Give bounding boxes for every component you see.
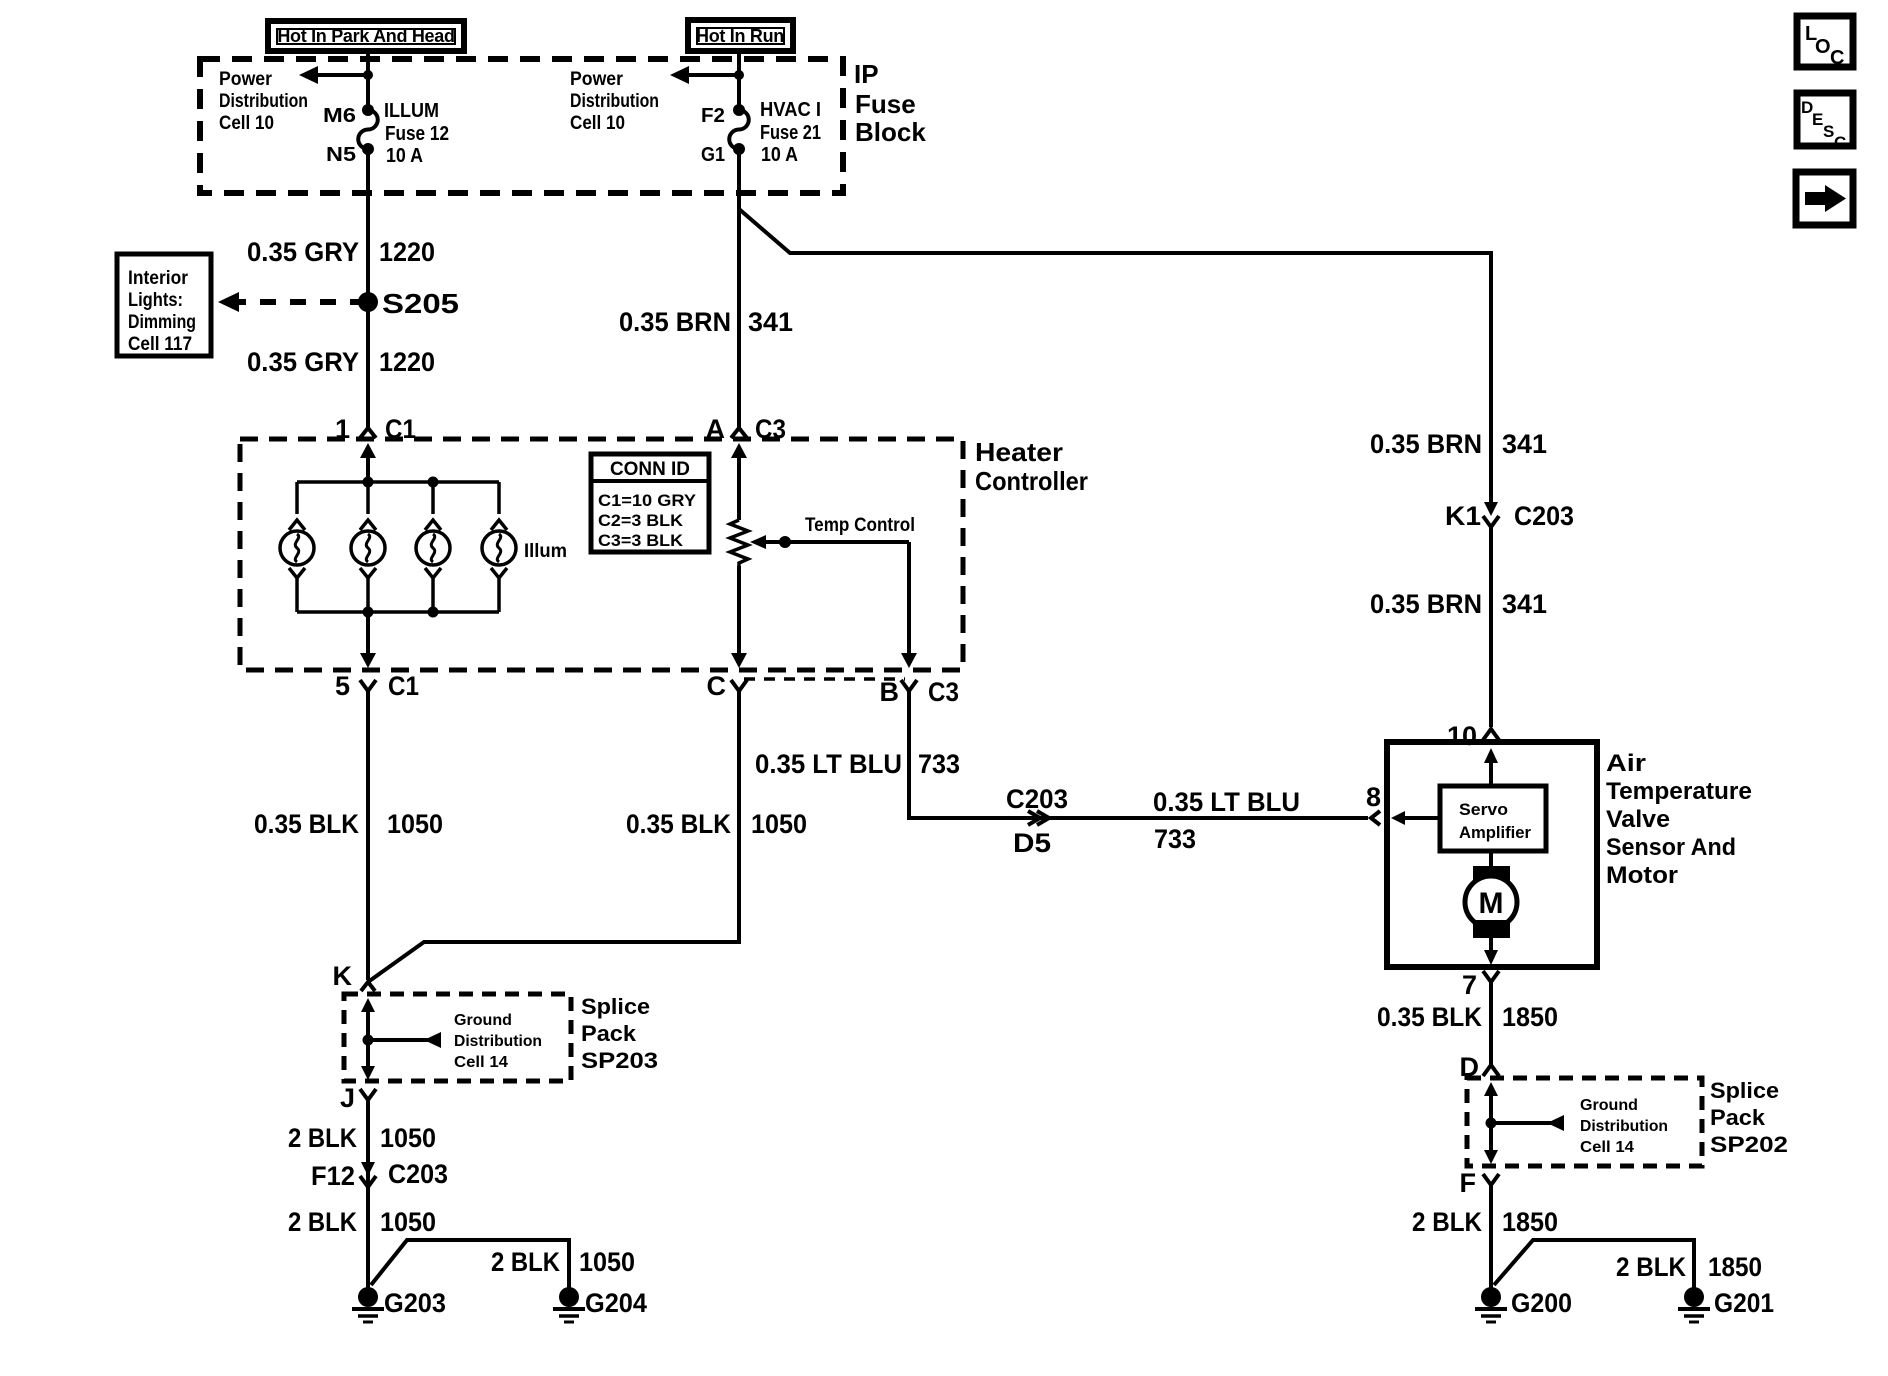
- svg-text:Air: Air: [1606, 750, 1646, 777]
- svg-text:Block: Block: [855, 117, 926, 147]
- svg-text:2 BLK: 2 BLK: [1412, 1207, 1482, 1237]
- svg-text:Ground: Ground: [1580, 1097, 1638, 1114]
- svg-text:C: C: [707, 671, 727, 701]
- dashed reference arrow to interior lights: [218, 292, 360, 312]
- svg-text:2 BLK: 2 BLK: [288, 1123, 357, 1153]
- svg-text:Servo: Servo: [1459, 800, 1508, 819]
- svg-text:E: E: [1812, 110, 1823, 129]
- bulb lamp 1: [280, 482, 314, 612]
- svg-text:M6: M6: [323, 105, 356, 127]
- svg-text:5: 5: [335, 671, 350, 701]
- svg-text:Cell 10: Cell 10: [570, 113, 625, 134]
- svg-text:1220: 1220: [379, 347, 435, 377]
- svg-text:C203: C203: [1514, 501, 1574, 531]
- svg-text:Cell 117: Cell 117: [128, 334, 192, 355]
- svg-text:K1: K1: [1445, 501, 1481, 531]
- wire ILLUM fuse to heater connector: [366, 149, 370, 427]
- svg-text:1850: 1850: [1708, 1252, 1762, 1282]
- svg-text:Fuse 21: Fuse 21: [760, 122, 821, 144]
- svg-text:N5: N5: [326, 144, 356, 166]
- wire pin10 to servo: [1484, 748, 1498, 786]
- svg-text:SP202: SP202: [1710, 1132, 1788, 1157]
- svg-text:1050: 1050: [579, 1247, 635, 1277]
- wire pin B down and right to servo: [909, 691, 1368, 818]
- svg-text:C: C: [1834, 133, 1846, 152]
- connector C203 D5 inline: [1006, 784, 1068, 858]
- svg-text:Splice: Splice: [581, 994, 650, 1019]
- svg-text:Power: Power: [219, 69, 273, 90]
- svg-text:10: 10: [1447, 721, 1477, 751]
- svg-text:ILLUM: ILLUM: [384, 100, 439, 122]
- splice SP203 internals: [361, 998, 542, 1080]
- svg-text:1050: 1050: [387, 809, 443, 839]
- svg-text:341: 341: [1502, 429, 1547, 459]
- svg-text:10 A: 10 A: [761, 144, 798, 166]
- branch to G204: [371, 1240, 569, 1290]
- connector pin 8: [1366, 782, 1381, 825]
- power distribution arrow (left): [299, 66, 373, 84]
- svg-text:0.35 BLK: 0.35 BLK: [626, 809, 731, 839]
- servo output arrow to pin 8: [1391, 811, 1440, 825]
- svg-text:Heater: Heater: [975, 437, 1063, 467]
- svg-text:Cell 14: Cell 14: [454, 1054, 508, 1071]
- svg-text:1220: 1220: [379, 237, 435, 267]
- svg-text:0.35 GRY: 0.35 GRY: [247, 347, 359, 377]
- svg-text:SP203: SP203: [581, 1048, 658, 1073]
- svg-text:1050: 1050: [751, 809, 807, 839]
- svg-text:341: 341: [748, 307, 793, 337]
- label Hot In Park And Head: [268, 21, 464, 51]
- wire wiper to pin B: [901, 542, 917, 668]
- svg-text:Hot In Park And Head: Hot In Park And Head: [277, 26, 454, 46]
- DESC icon: [1797, 93, 1853, 152]
- svg-text:Ground: Ground: [454, 1012, 512, 1029]
- CONN ID table: [591, 454, 709, 552]
- svg-text:S: S: [1823, 122, 1834, 141]
- svg-text:G201: G201: [1714, 1288, 1774, 1318]
- svg-text:Lights:: Lights:: [128, 290, 183, 311]
- interior lights dimming cell box: [117, 254, 211, 356]
- svg-text:7: 7: [1462, 970, 1477, 1000]
- svg-text:8: 8: [1366, 782, 1381, 812]
- svg-text:B: B: [880, 677, 900, 707]
- svg-text:2 BLK: 2 BLK: [491, 1247, 560, 1277]
- svg-text:IP: IP: [854, 59, 879, 89]
- connector pin 1 C1: [335, 414, 416, 482]
- svg-text:Distribution: Distribution: [570, 91, 659, 112]
- svg-text:C1: C1: [385, 414, 416, 444]
- connector pin 7: [1462, 970, 1499, 1000]
- svg-text:G200: G200: [1511, 1288, 1572, 1318]
- svg-text:1: 1: [335, 414, 350, 444]
- temp control potentiometer: [730, 520, 748, 668]
- branch to G201: [1494, 1240, 1694, 1290]
- connector J: [340, 1083, 376, 1113]
- wire branch to air temperature valve: [739, 209, 1491, 505]
- connector pin 10: [1447, 721, 1499, 751]
- svg-text:G204: G204: [585, 1288, 647, 1318]
- svg-text:1050: 1050: [380, 1207, 436, 1237]
- connector K: [333, 961, 376, 991]
- svg-text:0.35 LT BLU: 0.35 LT BLU: [1153, 787, 1300, 817]
- svg-text:Temperature: Temperature: [1606, 778, 1752, 805]
- svg-text:Cell 14: Cell 14: [1580, 1139, 1634, 1156]
- connector K1 C203: [1445, 501, 1574, 531]
- svg-text:C: C: [1830, 47, 1844, 69]
- svg-text:Amplifier: Amplifier: [1459, 823, 1531, 842]
- svg-text:C203: C203: [388, 1159, 448, 1189]
- fuse F12 ILLUM (Fuse 12): [358, 104, 378, 155]
- svg-text:Interior: Interior: [128, 268, 189, 289]
- connector F: [1460, 1168, 1500, 1198]
- svg-text:1850: 1850: [1502, 1002, 1558, 1032]
- svg-text:1850: 1850: [1502, 1207, 1558, 1237]
- svg-text:Temp Control: Temp Control: [805, 515, 915, 536]
- svg-text:Cell 10: Cell 10: [219, 113, 274, 134]
- svg-text:Illum: Illum: [524, 541, 567, 562]
- svg-text:0.35 BLK: 0.35 BLK: [254, 809, 359, 839]
- label Hot In Run: [688, 20, 793, 51]
- svg-text:S205: S205: [382, 288, 459, 319]
- svg-text:2 BLK: 2 BLK: [288, 1207, 357, 1237]
- ground G204: [553, 1287, 647, 1322]
- svg-text:D5: D5: [1013, 828, 1051, 858]
- splice S205: [358, 288, 459, 319]
- svg-text:0.35 BRN: 0.35 BRN: [1370, 429, 1482, 459]
- svg-text:C1=10 GRY: C1=10 GRY: [598, 491, 697, 510]
- wire J to ground: [366, 1100, 370, 1290]
- heater controller dashed box: [240, 439, 963, 670]
- svg-text:M: M: [1479, 887, 1504, 920]
- wire HVAC fuse down to heater connector A: [737, 149, 741, 427]
- connector pin B C3: [880, 677, 960, 707]
- connector face dashed line C-B: [744, 677, 905, 681]
- power distribution arrow (right): [670, 66, 744, 84]
- svg-text:Distribution: Distribution: [219, 91, 308, 112]
- svg-text:F12: F12: [311, 1161, 355, 1191]
- svg-text:733: 733: [918, 749, 960, 779]
- connector pin A C3: [706, 414, 787, 520]
- svg-text:Distribution: Distribution: [1580, 1118, 1668, 1135]
- svg-text:Splice: Splice: [1710, 1078, 1779, 1103]
- splice pack SP202 dashed box: [1467, 1078, 1702, 1166]
- svg-text:Pack: Pack: [1710, 1105, 1766, 1130]
- IP fuse block dashed box: [200, 59, 843, 193]
- wire pin C down and across to K: [368, 691, 739, 982]
- bulb lamp 2: [351, 482, 385, 612]
- svg-text:F2: F2: [701, 105, 725, 127]
- wire right feed: [737, 49, 741, 110]
- svg-text:733: 733: [1154, 824, 1196, 854]
- fuse HVAC I (Fuse 21): [729, 104, 749, 155]
- servo amplifier box: [1440, 786, 1546, 851]
- motor M: [1465, 851, 1517, 965]
- wire bulbs to pin 5: [360, 612, 376, 668]
- svg-text:10 A: 10 A: [386, 145, 423, 167]
- bulb lamp 3: [416, 482, 450, 612]
- svg-text:Dimming: Dimming: [128, 312, 196, 333]
- ground G203: [352, 1287, 446, 1322]
- svg-text:0.35 BRN: 0.35 BRN: [619, 307, 731, 337]
- svg-text:Fuse: Fuse: [855, 89, 916, 119]
- svg-text:0.35 BLK: 0.35 BLK: [1377, 1002, 1482, 1032]
- svg-text:C203: C203: [1006, 784, 1068, 814]
- svg-text:Valve: Valve: [1606, 806, 1670, 833]
- next-page arrow icon: [1796, 172, 1853, 225]
- svg-text:Motor: Motor: [1606, 862, 1678, 889]
- svg-text:Power: Power: [570, 69, 624, 90]
- wire left feed: [366, 49, 370, 110]
- svg-text:C2=3 BLK: C2=3 BLK: [598, 511, 684, 530]
- svg-text:K: K: [333, 961, 353, 991]
- connector pin 5 C1: [335, 671, 419, 701]
- connector F12 C203: [311, 1159, 448, 1191]
- svg-text:G1: G1: [701, 144, 725, 166]
- svg-text:F: F: [1460, 1168, 1477, 1198]
- wire F to ground: [1489, 1185, 1493, 1290]
- splice pack SP203 dashed box: [344, 994, 571, 1081]
- wire pin5 to splice pack K: [366, 691, 370, 980]
- illumination bulbs bus: [297, 480, 499, 484]
- svg-text:C1: C1: [388, 671, 419, 701]
- bulb lamp 4 (Illum): [482, 482, 516, 612]
- svg-text:Pack: Pack: [581, 1021, 637, 1046]
- svg-text:1050: 1050: [380, 1123, 436, 1153]
- svg-text:CONN ID: CONN ID: [610, 459, 690, 480]
- splice SP202 internals: [1484, 1082, 1668, 1164]
- svg-text:0.35 BRN: 0.35 BRN: [1370, 589, 1482, 619]
- svg-text:Controller: Controller: [975, 466, 1088, 496]
- svg-text:Fuse 12: Fuse 12: [385, 123, 449, 145]
- svg-text:G203: G203: [384, 1288, 446, 1318]
- svg-text:2 BLK: 2 BLK: [1616, 1252, 1686, 1282]
- svg-text:O: O: [1815, 36, 1831, 58]
- LOC icon: [1797, 16, 1853, 69]
- temp control wiper: [750, 515, 915, 549]
- ground G201: [1678, 1287, 1774, 1322]
- svg-text:C3=3 BLK: C3=3 BLK: [598, 531, 684, 550]
- svg-text:Hot In Run: Hot In Run: [696, 26, 784, 46]
- air temp valve box: [1387, 742, 1597, 967]
- svg-text:J: J: [340, 1083, 355, 1113]
- connector pin C: [707, 671, 748, 701]
- svg-text:0.35 GRY: 0.35 GRY: [247, 237, 359, 267]
- svg-text:HVAC I: HVAC I: [760, 99, 821, 121]
- svg-text:0.35 LT BLU: 0.35 LT BLU: [755, 749, 902, 779]
- connector D: [1460, 1052, 1500, 1082]
- svg-text:C3: C3: [755, 414, 786, 444]
- ground G200: [1475, 1287, 1572, 1322]
- svg-text:Sensor And: Sensor And: [1606, 834, 1736, 861]
- svg-text:C3: C3: [928, 677, 959, 707]
- svg-text:Distribution: Distribution: [454, 1033, 542, 1050]
- svg-text:A: A: [706, 414, 726, 444]
- svg-text:341: 341: [1502, 589, 1547, 619]
